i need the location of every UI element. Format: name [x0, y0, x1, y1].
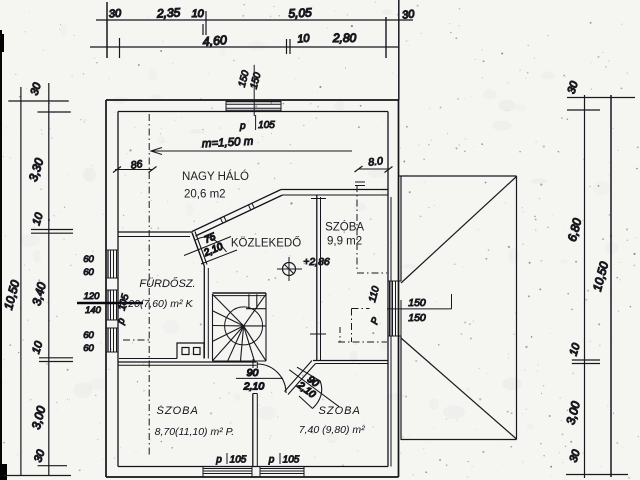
svg-text:p: p	[239, 121, 246, 132]
svg-text:30: 30	[29, 81, 44, 97]
svg-text:4,60: 4,60	[202, 33, 228, 49]
svg-text:SZÓBA: SZÓBA	[325, 221, 364, 234]
stair box left	[212, 294, 214, 361]
svg-text:20,6 m2: 20,6 m2	[184, 189, 226, 201]
top window 150/150 hatch	[226, 101, 281, 103]
svg-text:SZOBA: SZOBA	[319, 405, 361, 417]
winder tread r7	[241, 326, 244, 361]
tick y110	[567, 109, 600, 111]
inner dim line	[48, 83, 50, 476]
wing right edge	[516, 176, 518, 440]
winder tread r3	[213, 325, 244, 327]
svg-text:10,50: 10,50	[590, 260, 611, 293]
outer dim line	[20, 87, 22, 476]
svg-text:10: 10	[192, 8, 205, 20]
svg-text:2,35: 2,35	[156, 5, 181, 20]
winder tread r1	[213, 294, 244, 326]
m=1,50 arrow line	[151, 150, 352, 152]
appliance square 1	[182, 348, 189, 355]
diagonal wall line2	[288, 364, 316, 395]
svg-text:10: 10	[31, 211, 46, 227]
svg-text:10,50: 10,50	[1, 278, 22, 311]
double tick y360	[572, 359, 600, 361]
LEFTRULER	[1, 81, 73, 476]
roofline dashdot h y273	[357, 272, 387, 274]
height marker cross h	[277, 268, 302, 270]
double tick y230	[31, 229, 73, 231]
tick y112	[38, 111, 71, 113]
door1 swing arc	[257, 364, 286, 393]
equals tick x357	[355, 181, 365, 183]
svg-text:KÖZLEKEDŐ: KÖZLEKEDŐ	[231, 236, 301, 250]
winder tread r9	[244, 326, 266, 361]
left wall outer	[105, 100, 107, 477]
svg-text:60: 60	[83, 343, 94, 354]
FURDOSZ door swing arc	[196, 237, 227, 252]
dim line 2	[90, 46, 399, 48]
svg-text:120: 120	[84, 291, 101, 302]
svg-text:P: P	[369, 316, 382, 326]
wing roof diagonal lower	[401, 338, 517, 439]
wing roof diagonal upper	[401, 177, 517, 284]
stair box top	[213, 292, 267, 294]
roofline dashdot horiz furdo	[123, 339, 150, 341]
top window centerline	[253, 65, 255, 116]
tick y466	[38, 465, 67, 467]
stair box bottom	[213, 360, 267, 362]
stair box right	[265, 293, 267, 361]
left window3 hatch	[107, 328, 109, 352]
svg-text:30: 30	[568, 448, 583, 464]
height marker diag	[285, 265, 294, 274]
svg-text:140: 140	[85, 305, 102, 316]
bottom tick y475	[4, 475, 71, 477]
FURDOSZ door closed line1	[184, 237, 231, 256]
wall NAGYHALO-SZOBA y190	[281, 189, 388, 191]
RIGHTRULER	[563, 79, 635, 478]
bottom windowA hatch	[203, 468, 252, 470]
wall between bottom rooms	[252, 394, 254, 467]
divider top tick	[311, 198, 326, 200]
door2 upper edge	[297, 367, 320, 381]
appliance niche box	[177, 343, 204, 359]
svg-text:2,10: 2,10	[201, 241, 225, 259]
dim 86 slash ticks	[113, 167, 121, 173]
svg-text:2,10: 2,10	[243, 381, 265, 393]
svg-text:105: 105	[283, 455, 300, 466]
svg-text:90: 90	[247, 367, 259, 379]
dim line 1	[96, 19, 413, 21]
svg-text:30: 30	[32, 448, 47, 464]
svg-text:8,70(11,10) m² P.: 8,70(11,10) m² P.	[155, 426, 235, 438]
FURDOSZ right wall	[203, 266, 205, 359]
tick y101	[8, 100, 69, 102]
winder tread r4	[213, 326, 244, 342]
FURDOSZ bottom edge	[119, 358, 177, 360]
upper tread v2	[256, 294, 258, 309]
glazed wall mullion ticks	[221, 218, 223, 222]
tick x203	[202, 24, 204, 35]
door2 closing line	[299, 396, 313, 409]
winder tread r5	[213, 326, 244, 361]
tick x386	[385, 17, 387, 58]
roofline dashdot v x340	[339, 327, 341, 342]
appliance square 2	[194, 348, 201, 355]
door2 leaf long line	[289, 370, 339, 407]
dim 80 slash ticks	[355, 166, 363, 172]
outer dim line	[610, 95, 612, 477]
door2 swing arc	[313, 381, 322, 409]
double tick y359	[39, 357, 73, 359]
wall corridor-SZOBA2 y361	[313, 360, 388, 362]
svg-text:150: 150	[408, 297, 426, 309]
wall NAGYHALO-FURDOSZ y232	[118, 231, 192, 233]
svg-text:p: p	[115, 316, 128, 326]
svg-text:8.0: 8.0	[368, 155, 384, 168]
svg-text:10: 10	[568, 341, 583, 357]
svg-text:6,80: 6,80	[565, 217, 585, 243]
bottom windowB hatch	[260, 468, 304, 470]
left window1 hatch	[107, 250, 109, 278]
svg-text:7,40 (9,80) m²: 7,40 (9,80) m²	[299, 424, 365, 436]
wing bottom edge	[401, 439, 517, 441]
svg-text:110: 110	[367, 285, 382, 304]
tick y97.5	[567, 97, 635, 99]
right wall outer	[398, 100, 400, 477]
dim 86 line	[115, 169, 153, 171]
svg-text:105: 105	[258, 120, 275, 131]
right wall inner	[387, 112, 389, 467]
svg-text:60: 60	[83, 330, 94, 341]
wing left edge lower	[400, 336, 402, 440]
svg-text:9,9 m2: 9,9 m2	[327, 236, 362, 248]
svg-text:p: p	[268, 455, 275, 466]
svg-text:30: 30	[566, 79, 581, 95]
winder circle	[225, 307, 263, 345]
svg-text:m=1,50 m: m=1,50 m	[202, 136, 254, 151]
top wall inner	[118, 111, 388, 113]
tick x107	[106, 2, 108, 58]
svg-text:p: p	[215, 455, 222, 466]
m=1,50 arrowhead	[151, 148, 162, 155]
right wall outer2	[400, 300, 402, 440]
top window label tick	[255, 115, 257, 130]
svg-text:105: 105	[230, 455, 247, 466]
INTERIOR	[118, 190, 388, 467]
diagonal wall line1	[285, 361, 313, 392]
svg-text:10: 10	[30, 339, 45, 355]
door1 jamb	[252, 359, 254, 368]
tick x399 top	[398, 0, 400, 100]
svg-text:6,20(7,60) m² K: 6,20(7,60) m² K	[120, 298, 194, 310]
svg-text:150: 150	[408, 312, 426, 324]
roofline dashdot vertical right	[356, 185, 358, 270]
inner dim line	[584, 95, 586, 478]
winder tread r6	[228, 326, 244, 361]
upper tread h	[246, 308, 266, 310]
svg-text:3,00: 3,00	[563, 400, 583, 426]
ROOMTEXT	[120, 170, 366, 438]
left wall pointer line 120/140	[77, 302, 143, 305]
right door hatch 110	[389, 281, 391, 336]
winder tread r8	[244, 326, 255, 361]
svg-text:60: 60	[83, 254, 94, 265]
OPENINGS	[77, 65, 452, 477]
wing left edge upper	[400, 176, 402, 281]
FURDOSZ door closed line2	[201, 250, 237, 264]
svg-text:10: 10	[297, 32, 311, 45]
svg-text:3,40: 3,40	[29, 281, 49, 307]
svg-text:60: 60	[83, 267, 94, 278]
svg-text:3,00: 3,00	[29, 404, 49, 430]
door1 pointer line	[236, 377, 283, 379]
svg-text:NAGY HÁLÓ: NAGY HÁLÓ	[182, 170, 249, 183]
svg-text:30: 30	[401, 8, 416, 22]
winder tread r11	[244, 325, 266, 327]
roofline dashdot h y342	[338, 341, 387, 343]
left window2 hatch	[107, 290, 109, 320]
HOUSEWALLS	[106, 100, 401, 477]
bottom wall outer	[106, 476, 399, 478]
ANNOT	[113, 114, 393, 455]
svg-text:SZOBA: SZOBA	[157, 405, 199, 417]
wing top edge	[399, 175, 517, 177]
tick x206	[205, 11, 207, 35]
WING	[399, 176, 517, 440]
corridor-SZOBA divider x317-320	[316, 195, 318, 361]
glazed diagonal wall line1	[192, 190, 281, 232]
svg-text:5,05: 5,05	[288, 5, 312, 20]
glazed diagonal wall line2	[196, 195, 283, 236]
svg-text:3,30: 3,30	[26, 156, 47, 183]
dim 80 line	[359, 168, 390, 170]
left wall inner	[117, 112, 119, 467]
roofline dashdot h y308.5	[352, 308, 370, 310]
divider mid tick	[310, 333, 326, 335]
svg-text:FÜRDŐSZ.: FÜRDŐSZ.	[139, 276, 195, 290]
top wall outer	[106, 99, 399, 101]
TOPRULER	[90, 0, 416, 100]
height marker circle	[283, 263, 296, 276]
winder tread r2	[213, 311, 244, 326]
bottom wall inner	[118, 466, 388, 468]
upper tread v1	[248, 294, 250, 309]
wall FURDOSZ-SZOBA y362	[118, 361, 257, 363]
svg-text:+2,86: +2,86	[303, 256, 330, 268]
bottom tick y474.5	[566, 474, 628, 476]
svg-text:30: 30	[109, 8, 123, 21]
tick x119.5	[119, 38, 121, 58]
double tick x286.5	[286, 39, 288, 54]
SCAN-EDGES	[0, 30, 7, 480]
right wall line2	[390, 197, 392, 467]
svg-text:2,80: 2,80	[332, 31, 357, 45]
height marker cross v	[288, 257, 290, 281]
STAIRS	[213, 293, 267, 361]
winder tread r10	[244, 294, 266, 326]
double tick x290	[289, 39, 291, 54]
FURDOSZ door leaf diagonal	[192, 233, 204, 266]
roofline dashdot v x351.5	[351, 309, 353, 343]
right door pointer	[387, 308, 452, 310]
roofline dashdot vertical left	[148, 114, 150, 455]
